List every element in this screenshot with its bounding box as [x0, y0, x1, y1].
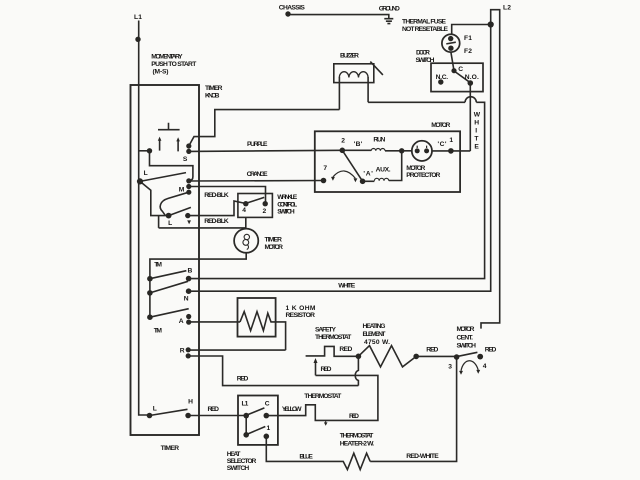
svg-text:AUX.: AUX.	[376, 166, 391, 173]
svg-text:2: 2	[263, 208, 267, 215]
svg-text:F2: F2	[464, 48, 472, 55]
svg-text:DOOR: DOOR	[416, 50, 430, 57]
svg-text:'C': 'C'	[438, 141, 447, 148]
svg-text:N.O.: N.O.	[465, 74, 479, 81]
svg-text:TIMER: TIMER	[161, 445, 180, 452]
svg-text:MOTOR: MOTOR	[457, 326, 475, 333]
svg-text:YELLOW: YELLOW	[282, 406, 302, 413]
svg-text:KNOB: KNOB	[205, 93, 220, 100]
svg-text:T: T	[474, 136, 479, 143]
svg-text:SAFETY: SAFETY	[315, 327, 337, 334]
svg-text:TM: TM	[154, 262, 162, 269]
svg-text:(M-S): (M-S)	[153, 69, 169, 76]
svg-text:B: B	[188, 268, 193, 275]
svg-text:MOTOR: MOTOR	[406, 165, 425, 172]
svg-text:HEATING: HEATING	[363, 323, 386, 330]
svg-text:RED: RED	[237, 376, 249, 383]
svg-text:1: 1	[267, 425, 271, 432]
svg-text:WHITE: WHITE	[338, 283, 356, 290]
svg-text:HEATER-2 W.: HEATER-2 W.	[340, 441, 374, 448]
svg-text:THERMOSTAT: THERMOSTAT	[340, 433, 374, 440]
svg-text:RESISTOR: RESISTOR	[286, 312, 316, 319]
svg-text:SWITCH: SWITCH	[227, 465, 250, 472]
svg-text:E: E	[474, 144, 479, 151]
svg-text:SWITCH: SWITCH	[277, 209, 295, 216]
svg-text:H: H	[474, 120, 479, 127]
svg-text:4750 W.: 4750 W.	[364, 339, 390, 346]
svg-text:PROTECTOR: PROTECTOR	[406, 172, 440, 179]
svg-text:C: C	[458, 66, 463, 73]
svg-text:GROUND: GROUND	[379, 6, 400, 13]
svg-text:L1: L1	[242, 401, 249, 408]
svg-text:F1: F1	[464, 35, 472, 42]
svg-text:CENT.: CENT.	[457, 335, 474, 342]
svg-text:1 K OHM: 1 K OHM	[286, 305, 316, 312]
svg-text:L2: L2	[503, 4, 511, 11]
svg-text:RED: RED	[485, 346, 497, 353]
svg-text:H: H	[188, 399, 193, 406]
svg-text:L: L	[144, 170, 148, 177]
svg-text:CONTROL: CONTROL	[277, 201, 297, 208]
svg-text:CHASSIS: CHASSIS	[279, 4, 306, 11]
svg-text:ORANGE: ORANGE	[247, 171, 269, 178]
svg-text:S: S	[183, 156, 188, 163]
svg-text:M: M	[179, 186, 185, 193]
svg-text:4: 4	[242, 207, 246, 214]
svg-text:RED: RED	[426, 346, 438, 353]
svg-text:THERMAL FUSE: THERMAL FUSE	[402, 19, 447, 26]
svg-text:THERMOSTAT: THERMOSTAT	[315, 334, 352, 341]
svg-text:N.C.: N.C.	[436, 74, 449, 81]
svg-text:2: 2	[341, 138, 345, 145]
svg-text:SELECTOR: SELECTOR	[227, 458, 257, 465]
svg-text:RED: RED	[349, 413, 359, 420]
svg-text:W: W	[474, 112, 481, 119]
svg-text:ELEMENT: ELEMENT	[363, 331, 387, 338]
svg-text:RED-BLK: RED-BLK	[204, 192, 229, 199]
svg-text:A: A	[179, 318, 184, 325]
svg-text:TIMER: TIMER	[265, 236, 283, 243]
svg-text:3: 3	[448, 364, 452, 371]
svg-text:L: L	[153, 405, 157, 412]
svg-text:MOTOR: MOTOR	[265, 244, 284, 251]
svg-text:SWITCH: SWITCH	[457, 342, 477, 349]
svg-text:WRINKLE: WRINKLE	[277, 194, 298, 201]
svg-text:TIMER: TIMER	[205, 85, 223, 92]
svg-text:RUN: RUN	[373, 136, 385, 143]
svg-text:RED-WHITE: RED-WHITE	[406, 453, 439, 460]
svg-text:BUZZER: BUZZER	[340, 53, 359, 60]
svg-text:TM: TM	[154, 328, 163, 335]
svg-text:MOMENTARY: MOMENTARY	[151, 53, 183, 60]
svg-text:SWITCH: SWITCH	[416, 57, 435, 64]
svg-text:L1: L1	[134, 14, 142, 21]
svg-text:C: C	[265, 401, 270, 408]
svg-text:PUSH TO START: PUSH TO START	[151, 61, 197, 68]
svg-text:'A': 'A'	[363, 171, 373, 178]
svg-text:MOTOR: MOTOR	[431, 122, 450, 129]
svg-text:L: L	[168, 220, 172, 227]
svg-text:1: 1	[449, 137, 453, 144]
svg-text:N: N	[184, 295, 189, 302]
svg-text:I: I	[475, 128, 477, 135]
svg-text:4: 4	[483, 363, 487, 370]
svg-text:THERMOSTAT: THERMOSTAT	[304, 393, 342, 400]
svg-text:RED: RED	[208, 406, 220, 413]
svg-text:NOT RESETABLE: NOT RESETABLE	[402, 26, 449, 33]
svg-text:'B': 'B'	[354, 141, 363, 148]
svg-text:PURPLE: PURPLE	[247, 141, 268, 148]
svg-text:RED: RED	[339, 346, 352, 353]
svg-text:BLUE: BLUE	[299, 453, 313, 460]
svg-text:RED: RED	[321, 366, 332, 373]
svg-text:7: 7	[323, 165, 327, 172]
svg-text:R: R	[180, 347, 185, 354]
svg-text:RED-BLK: RED-BLK	[204, 218, 229, 225]
svg-text:HEAT: HEAT	[227, 451, 242, 458]
